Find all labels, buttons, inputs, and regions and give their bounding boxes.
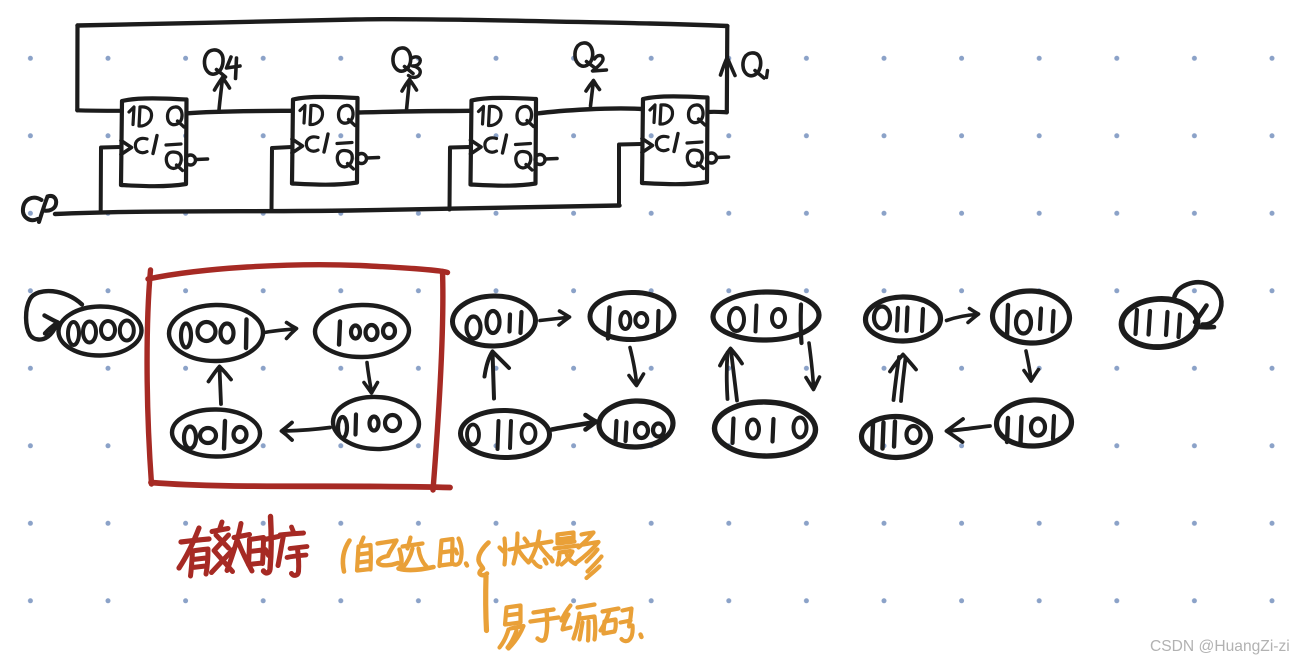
state 1110 [861,416,931,458]
red annotation character: xiao (效) [212,522,253,573]
label CP [23,196,56,222]
wire: clock riser FF1 [101,147,121,211]
arrow Q4 output [215,78,230,111]
label Q1 [743,53,768,78]
arrow 0110 to 1100 [552,415,596,430]
orange character: tai (态) [528,532,553,568]
wire: FF3 Q to FF4 D [537,108,642,113]
arrow 0100 to 0010 [282,423,331,441]
wire: clock riser FF3 [450,147,471,210]
arrow Q3 output [402,80,417,111]
orange period 2 [641,635,642,638]
state 0101 [713,291,820,343]
orange character: xuan (选) [399,538,434,571]
red annotation character: you (有) [179,528,209,576]
wire: clock riser FF4 [619,144,642,206]
flip-flop FF2 [292,97,379,185]
arrow 0101 to 1010 [806,343,820,390]
svg-text:CSDN @HuangZi-zi: CSDN @HuangZi-zi [1150,638,1290,655]
arrow 1011 to 1101 [1024,351,1039,381]
wire: CP bus [55,206,620,215]
orange character: zi (自) [357,538,371,571]
state 0011 [452,295,536,346]
label Q2 [575,43,607,71]
arrow 1101 to 1110 [947,419,991,442]
orange curl bracket [479,543,489,576]
self-loop arrow on 1111 [1175,282,1222,327]
arrowhead on Q1 vertical [721,58,736,76]
state 1101 [996,399,1073,448]
arrow 0011 to 1001 [540,311,570,325]
wire: Q output of FF4 to top feedback corner [709,110,727,115]
state 1100 [598,400,674,449]
arrow 1000 to 0100 [364,363,378,394]
orange character: duo (多) [577,533,602,579]
wire: FF2 Q to FF3 D [359,111,471,113]
orange open parenthesis [343,541,350,572]
state 0111 [865,296,941,341]
red annotation character: xu (序) [278,527,307,575]
wire: right vertical of feedback loop [725,26,730,112]
arrow 0010 to 0001 [209,367,232,405]
arrow Q2 output [586,81,600,107]
orange connector stroke [483,576,489,631]
wire: clock riser FF2 [272,147,292,210]
orange character: de (的) [440,539,462,567]
orange period [466,564,467,566]
orange character: bian (编) [562,605,596,641]
wire: FF1 Q to FF2 D [188,111,292,114]
arrow 0001 to 1000 [265,323,297,339]
state 0110 [460,410,550,459]
wire: into FF1 D input [77,108,120,113]
arrow 0110 to 0011 [485,352,510,399]
arrow 1010 to 0101 [720,349,742,401]
arrow 1001 to 1100 [629,348,644,386]
label Q3 [393,48,420,77]
self-loop arrow on 0000 [26,291,82,340]
orange character: zhuang (状) [500,534,529,565]
orange character: ji (己) [378,541,399,566]
arrow 0111 to 1011 [947,309,979,323]
red annotation character: shi (时) [249,517,279,573]
state 1001 [590,292,675,340]
flip-flop FF3 [471,98,558,186]
orange character: zui (最) [555,533,579,565]
state 1111 [1120,297,1198,349]
state 0100 [332,396,420,451]
state 0010 [172,409,261,458]
state 0000 [58,306,142,356]
watermark CSDN @HuangZi-zi [1150,638,1290,655]
wire: top horizontal feedback [78,19,728,26]
orange character: ma (码) [601,609,633,642]
arrow 1110 to 0111 [890,355,916,402]
red highlight box [147,265,450,490]
state 1011 [992,290,1071,345]
label Q4 [204,50,240,79]
flip-flop FF1 [121,98,208,186]
orange character: yu (于) [531,610,559,641]
state 1000 [315,304,410,358]
orange character: yi (易) [500,606,524,649]
state 1010 [714,401,816,457]
wire: left vertical of feedback loop [75,26,79,111]
state 0001 [169,304,264,362]
flip-flop FF4 (Q1 stage feedback source) [642,96,729,184]
